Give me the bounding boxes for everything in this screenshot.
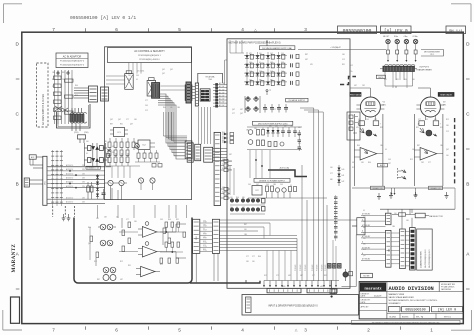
svg-text:9V VALVE SUPPLY: 9V VALVE SUPPLY bbox=[289, 99, 306, 102]
svg-text:680: 680 bbox=[259, 80, 262, 82]
dashed pin bars lower bbox=[53, 206, 75, 217]
svg-text:C45: C45 bbox=[203, 221, 206, 223]
svg-text:6: 6 bbox=[115, 27, 118, 32]
svg-text:0.1: 0.1 bbox=[426, 119, 428, 121]
AC inlet socket J901 bbox=[29, 155, 43, 168]
svg-text:P ORIVE: P ORIVE bbox=[305, 265, 307, 271]
svg-text:0.1: 0.1 bbox=[363, 232, 365, 234]
capacitor column right bbox=[334, 195, 338, 241]
svg-text:C45: C45 bbox=[280, 184, 283, 186]
revision box NO NE bbox=[360, 273, 372, 277]
svg-text:C77: C77 bbox=[330, 173, 333, 175]
title block left column texts bbox=[361, 294, 382, 309]
svg-text:R44: R44 bbox=[258, 256, 261, 258]
terminal pin block CN7 bbox=[200, 89, 210, 101]
svg-text:2K2: 2K2 bbox=[362, 85, 365, 87]
output tube stage V2 REAR VALVE bbox=[414, 88, 454, 186]
svg-text:MARANTZ WM8: MARANTZ WM8 bbox=[389, 293, 405, 296]
rectifier bus verticals bbox=[85, 143, 106, 166]
zener diode column D201 bbox=[96, 174, 99, 200]
svg-text:D12: D12 bbox=[440, 127, 443, 129]
svg-text:R12: R12 bbox=[446, 119, 449, 121]
transformer centre tap drops bbox=[393, 72, 407, 89]
svg-text:1N4: 1N4 bbox=[273, 184, 276, 186]
svg-text:P ORIVE: P ORIVE bbox=[300, 265, 302, 271]
svg-text:C12: C12 bbox=[446, 131, 449, 133]
svg-text:0.1: 0.1 bbox=[222, 136, 224, 138]
svg-text:C45: C45 bbox=[266, 184, 269, 186]
svg-text:680: 680 bbox=[330, 179, 333, 181]
svg-text:22u: 22u bbox=[116, 217, 119, 219]
svg-text:PC05520(EU)/(EU)LEV 1: PC05520(EU)/(EU)LEV 1 bbox=[138, 55, 161, 57]
wires between CN12 CN13 bbox=[200, 221, 213, 252]
interstage transistors J1 J2 bbox=[398, 168, 406, 180]
svg-text:C12: C12 bbox=[342, 59, 345, 61]
transistor Q101 bbox=[135, 144, 140, 149]
svg-text:DRIVER TO POWER SUPPLY: DRIVER TO POWER SUPPLY bbox=[259, 180, 285, 182]
svg-text:B: B bbox=[466, 182, 469, 187]
svg-text:0.1: 0.1 bbox=[262, 128, 264, 130]
op-amp stage A2 bbox=[138, 242, 162, 257]
module output connector bar CN13 bbox=[212, 219, 219, 253]
svg-text:0.1: 0.1 bbox=[203, 229, 205, 231]
svg-text:4Ω OUT: 4Ω OUT bbox=[383, 36, 389, 38]
svg-text:4K7: 4K7 bbox=[222, 187, 225, 189]
svg-text:4K7: 4K7 bbox=[222, 159, 225, 161]
svg-text:0.1: 0.1 bbox=[363, 210, 365, 212]
svg-text:marantz: marantz bbox=[364, 285, 381, 290]
svg-text:100: 100 bbox=[244, 229, 247, 231]
MOTHER BOARD PWR board outline bbox=[227, 39, 350, 288]
svg-text:R31: R31 bbox=[342, 64, 345, 66]
svg-text:D12: D12 bbox=[203, 241, 206, 243]
connector bar bottom drops bbox=[196, 253, 218, 283]
svg-text:[A] LEV 0: [A] LEV 0 bbox=[384, 29, 408, 34]
svg-text:C12: C12 bbox=[273, 109, 276, 111]
9V filter caps row bbox=[263, 104, 288, 113]
svg-text:D42: D42 bbox=[342, 181, 345, 183]
wire bundle relay to connector diagonal bbox=[158, 94, 185, 159]
mid vertical bus to lower connectors bbox=[199, 107, 211, 144]
wire bundle switch to filter bbox=[74, 88, 89, 98]
svg-text:Q07: Q07 bbox=[270, 53, 273, 55]
svg-text:C77: C77 bbox=[252, 256, 255, 258]
svg-text:680: 680 bbox=[242, 197, 245, 199]
title block part number row bbox=[389, 307, 430, 313]
svg-text:22u: 22u bbox=[350, 71, 353, 73]
meter connector bar CN15 bbox=[400, 229, 406, 269]
svg-text:A77: A77 bbox=[320, 285, 323, 288]
link wire to meter section bbox=[220, 220, 357, 226]
svg-text:5: 5 bbox=[178, 27, 181, 32]
svg-text:MR SCREWDRIVER: MR SCREWDRIVER bbox=[424, 52, 441, 54]
connector bar CN8 bbox=[187, 143, 193, 162]
neon lamp NE1 bbox=[105, 180, 116, 185]
link box right of driver bbox=[352, 218, 365, 235]
svg-text:24V VALVE HEATER SUPPLY (8A): 24V VALVE HEATER SUPPLY (8A) bbox=[262, 47, 292, 50]
wire stub rows to mother board bbox=[213, 82, 227, 107]
chassis entry connector J902 bbox=[24, 178, 43, 187]
relay feed wires bbox=[106, 63, 185, 91]
INPUT & DRIVER PWR box bbox=[242, 295, 359, 316]
svg-text:B: B bbox=[16, 182, 19, 187]
svg-text:PC05525(220V)(EU)LEV 0: PC05525(220V)(EU)LEV 0 bbox=[60, 61, 85, 63]
svg-text:1N4: 1N4 bbox=[392, 226, 395, 228]
svg-text:2K2: 2K2 bbox=[128, 75, 131, 77]
svg-text:R31: R31 bbox=[128, 79, 131, 81]
svg-text:P ORIVE: P ORIVE bbox=[325, 265, 327, 271]
svg-text:R31: R31 bbox=[120, 124, 123, 126]
driver supply IC U2 bbox=[252, 186, 262, 196]
wires between meter bars bbox=[391, 232, 410, 266]
svg-text:COMm: COMm bbox=[412, 36, 418, 38]
svg-text:Q07: Q07 bbox=[110, 119, 113, 121]
svg-text:R87: R87 bbox=[110, 124, 113, 126]
connector bar CN5 dark bbox=[186, 82, 191, 103]
svg-text:R31: R31 bbox=[396, 79, 399, 81]
decoupling caps C31 C32 bbox=[298, 130, 302, 151]
meter connector bar CN14 bbox=[386, 230, 392, 267]
speaker terminal J2 bbox=[395, 39, 399, 43]
svg-text:R87: R87 bbox=[97, 279, 100, 281]
svg-text:22u: 22u bbox=[363, 238, 366, 240]
parts right of CN11 mid bbox=[221, 159, 233, 171]
svg-text:D12: D12 bbox=[281, 62, 284, 64]
svg-text:LTD 5: LTD 5 bbox=[430, 54, 434, 56]
input stage module thick outline bbox=[74, 218, 192, 284]
security IC U102 bbox=[134, 140, 155, 150]
svg-text:(230): (230) bbox=[84, 132, 89, 134]
svg-text:DC COIL: DC COIL bbox=[137, 71, 144, 73]
svg-text:D40: D40 bbox=[342, 169, 345, 171]
svg-text:P ORIVE: P ORIVE bbox=[295, 265, 297, 271]
svg-text:1: 1 bbox=[430, 328, 433, 333]
svg-text:Q07: Q07 bbox=[162, 69, 165, 71]
op-amp stage A3 bbox=[136, 266, 160, 276]
svg-text:D12: D12 bbox=[264, 275, 267, 277]
corner registration mark bottom-right bbox=[451, 310, 472, 330]
svg-text:4K7: 4K7 bbox=[120, 279, 123, 281]
svg-text:680: 680 bbox=[104, 141, 107, 143]
svg-text:1N4: 1N4 bbox=[380, 145, 383, 147]
bias transistor pair Q5 Q6 bbox=[103, 267, 116, 280]
input transistor pair Q3 Q4 bbox=[100, 240, 113, 246]
title block outer frame bbox=[359, 282, 463, 319]
+B link heavy trace bbox=[268, 166, 307, 176]
svg-text:CN2: CN2 bbox=[196, 236, 198, 240]
grid column labels top bbox=[52, 27, 307, 32]
grid row labels right bbox=[466, 42, 470, 290]
svg-text:R44: R44 bbox=[404, 79, 407, 81]
svg-text:R87: R87 bbox=[222, 140, 225, 142]
svg-text:R87: R87 bbox=[244, 224, 247, 226]
driver stage dark transistors bbox=[230, 199, 265, 215]
svg-text:D: D bbox=[16, 42, 20, 47]
speaker terminal labels bbox=[383, 36, 418, 38]
svg-text:6: 6 bbox=[115, 328, 118, 333]
corner registration mark bottom-left bbox=[3, 310, 22, 330]
heater filter capacitors bbox=[291, 54, 300, 85]
svg-text:Q07: Q07 bbox=[256, 184, 259, 186]
svg-text:TRANSFORMER: TRANSFORMER bbox=[416, 68, 432, 71]
svg-text:R31: R31 bbox=[176, 219, 179, 221]
svg-text:MARANTZ: MARANTZ bbox=[11, 244, 17, 273]
svg-text:R12: R12 bbox=[410, 159, 413, 161]
meter connector TP bar bbox=[386, 213, 392, 225]
connector bracket outline bbox=[198, 73, 223, 83]
MOTHER BOARD PWR title bbox=[229, 41, 281, 44]
svg-text:+ 24V(8A) AT: + 24V(8A) AT bbox=[330, 46, 342, 49]
svg-text:R44: R44 bbox=[236, 197, 239, 199]
svg-text:MUTE: MUTE bbox=[378, 77, 384, 79]
svg-text:4K7: 4K7 bbox=[284, 125, 287, 127]
svg-text:6P1: 6P1 bbox=[443, 105, 446, 107]
svg-text:C: C bbox=[16, 112, 20, 117]
secondary bus line bbox=[48, 166, 111, 169]
svg-text:C12: C12 bbox=[270, 71, 273, 73]
svg-text:0.1: 0.1 bbox=[236, 207, 238, 209]
svg-text:7: 7 bbox=[440, 124, 441, 126]
arrow row into input connectors bbox=[263, 281, 337, 288]
neon lamp NE2 bbox=[116, 180, 127, 185]
marantz logo cell bbox=[360, 283, 385, 291]
svg-text:C12: C12 bbox=[374, 119, 377, 121]
speaker terminal J3 bbox=[404, 39, 408, 43]
svg-text:C45: C45 bbox=[136, 75, 139, 77]
svg-text:4K7: 4K7 bbox=[229, 154, 232, 156]
bottom remark bus line bbox=[352, 186, 455, 190]
svg-text:VALVE STAGE AMPLIFIER: VALVE STAGE AMPLIFIER bbox=[389, 296, 415, 299]
input box left bracket bbox=[246, 297, 252, 313]
svg-text:P ORIVE: P ORIVE bbox=[321, 265, 323, 271]
svg-text:5: 5 bbox=[178, 328, 181, 333]
svg-text:Q07: Q07 bbox=[446, 149, 449, 151]
diode column D41 bbox=[337, 165, 344, 186]
svg-text:(220): (220) bbox=[74, 132, 79, 134]
svg-text:C45: C45 bbox=[265, 109, 268, 111]
svg-text:PH 2AB 12E85LK: PH 2AB 12E85LK bbox=[441, 286, 455, 289]
vertical wire at box B edge bbox=[225, 60, 227, 85]
input connector strip B bbox=[307, 285, 337, 293]
svg-text:R31: R31 bbox=[128, 265, 131, 267]
title block dividers bbox=[359, 282, 463, 319]
neon lamp NE4 bbox=[150, 178, 155, 190]
svg-text:C77: C77 bbox=[126, 219, 129, 221]
svg-text:C77: C77 bbox=[145, 100, 148, 102]
OUTPUTS TRANSFORMER label bbox=[416, 66, 432, 71]
pin header column P3 bbox=[60, 150, 63, 206]
svg-text:1N4: 1N4 bbox=[440, 145, 443, 147]
svg-text:D12: D12 bbox=[94, 261, 97, 263]
svg-text:D12: D12 bbox=[222, 168, 225, 170]
svg-text:680: 680 bbox=[434, 119, 437, 121]
svg-text:MA PC05530(EU)/LEV 0: MA PC05530(EU)/LEV 0 bbox=[424, 249, 427, 268]
svg-text:680: 680 bbox=[363, 244, 366, 246]
mains bus wiring loop bbox=[57, 104, 91, 128]
svg-text:A11: A11 bbox=[283, 285, 286, 288]
svg-text:AC CONTROL & SECURITY: AC CONTROL & SECURITY bbox=[134, 50, 165, 53]
svg-text:9AF29E3/M6: 9AF29E3/M6 bbox=[441, 288, 451, 291]
svg-text:Q07: Q07 bbox=[240, 113, 243, 115]
svg-text:1N4: 1N4 bbox=[290, 125, 293, 127]
svg-text:Q07: Q07 bbox=[170, 69, 173, 71]
svg-text:ACF: ACF bbox=[31, 156, 34, 159]
svg-text:R12: R12 bbox=[75, 95, 78, 97]
svg-text:100: 100 bbox=[363, 221, 366, 223]
svg-text:R87: R87 bbox=[62, 72, 65, 74]
svg-text:AC MAIN SWITCH & FILTER: AC MAIN SWITCH & FILTER bbox=[42, 94, 45, 125]
sub circuit box right edge bbox=[347, 112, 360, 140]
slanted bus into CN8 bbox=[163, 112, 187, 142]
svg-text:4K7: 4K7 bbox=[354, 85, 357, 87]
svg-text:100: 100 bbox=[230, 207, 233, 209]
grid column labels bottom bbox=[52, 326, 433, 332]
svg-text:100: 100 bbox=[446, 155, 449, 157]
copyright fine print strip bbox=[352, 320, 461, 324]
op-amp stage A1 bbox=[138, 222, 162, 238]
corner registration mark top-left bbox=[4, 4, 23, 23]
mother board mid horizontal wires bbox=[220, 223, 298, 251]
svg-text:MA SELECTOR: MA SELECTOR bbox=[429, 215, 443, 218]
svg-text:0955500100: 0955500100 bbox=[343, 28, 372, 34]
svg-text:D12: D12 bbox=[352, 167, 355, 169]
svg-text:PC05510(EU)+FLEX 0: PC05510(EU)+FLEX 0 bbox=[139, 59, 160, 61]
svg-text:2: 2 bbox=[367, 328, 370, 333]
AUDIO DIVISION heading bbox=[389, 286, 434, 292]
svg-text:100: 100 bbox=[259, 53, 262, 55]
AC CONTROL & SECURITY board outline bbox=[105, 47, 192, 200]
title box drawing number bbox=[338, 26, 377, 34]
svg-text:R12: R12 bbox=[52, 79, 55, 81]
svg-text:NO NE: NO NE bbox=[363, 276, 370, 278]
svg-text:D12: D12 bbox=[104, 153, 107, 155]
svg-text:DATE:: DATE: bbox=[361, 301, 366, 304]
svg-text:100: 100 bbox=[86, 141, 89, 143]
indicator wiring bbox=[111, 186, 122, 200]
relay K1 bbox=[125, 71, 134, 89]
svg-text:7: 7 bbox=[52, 27, 55, 32]
svg-text:B/DWG: B/DWG bbox=[402, 316, 409, 318]
svg-text:4 Ωm: 4 Ωm bbox=[403, 36, 408, 38]
relay coil label bbox=[137, 71, 144, 73]
relay K2 bbox=[147, 78, 156, 96]
svg-text:D12: D12 bbox=[363, 249, 366, 251]
svg-text:22u: 22u bbox=[62, 79, 65, 81]
ground symbol G3 bbox=[414, 192, 418, 198]
svg-text:4K7: 4K7 bbox=[288, 275, 291, 277]
svg-text:APPD BY:: APPD BY: bbox=[361, 305, 370, 308]
svg-text:R44: R44 bbox=[163, 107, 166, 109]
three pad squares bbox=[328, 264, 342, 269]
power transformer T901 bbox=[70, 108, 89, 134]
title block description texts bbox=[389, 293, 439, 305]
security vertical wires to lamps bbox=[112, 166, 130, 178]
svg-text:OUTPUTS: OUTPUTS bbox=[419, 66, 429, 68]
LOADING METER label box vertical bbox=[417, 229, 433, 270]
svg-text:C45: C45 bbox=[249, 71, 252, 73]
bus drop symbols bbox=[391, 188, 418, 196]
svg-text:R44: R44 bbox=[368, 162, 371, 164]
snubber network RC901 bbox=[107, 149, 111, 163]
input module feedback wires bbox=[119, 224, 186, 258]
svg-text:R44: R44 bbox=[88, 227, 91, 229]
svg-text:0955500100 [A] LEV 0 1/1: 0955500100 [A] LEV 0 1/1 bbox=[70, 15, 136, 21]
thermal fuse box F901 bbox=[78, 135, 86, 143]
AC IN ADAPTOR label box bbox=[56, 53, 88, 68]
corner registration mark top-right bbox=[451, 4, 471, 22]
+B supply components row bbox=[247, 127, 302, 150]
wires CN10 to mother board bbox=[213, 149, 227, 161]
svg-text:MODEL/ART NM: MODEL/ART NM bbox=[441, 283, 455, 286]
driver supply parts row bbox=[248, 186, 327, 198]
svg-text:R44: R44 bbox=[75, 85, 78, 87]
DRIVER TO POWER SUPPLY label box bbox=[254, 178, 290, 182]
speaker terminal J4 bbox=[413, 39, 417, 43]
svg-text:100: 100 bbox=[230, 197, 233, 199]
input connector strip A bbox=[267, 285, 301, 293]
svg-text:D12: D12 bbox=[350, 65, 353, 67]
meter connector bar CN16 with pins bbox=[410, 228, 416, 270]
svg-text:R31: R31 bbox=[416, 127, 419, 129]
svg-text:4: 4 bbox=[418, 124, 419, 126]
svg-text:1N4: 1N4 bbox=[52, 72, 55, 74]
svg-text:C45: C45 bbox=[388, 159, 391, 161]
heater rectifier grid bbox=[244, 52, 287, 86]
security IC U101 bbox=[110, 128, 128, 137]
svg-text:C12: C12 bbox=[222, 164, 225, 166]
board F right-edge connector CN3 bbox=[185, 85, 192, 101]
bridge rectifier D901 row1 bbox=[84, 146, 107, 151]
heater supply output wire +24V bbox=[266, 41, 386, 50]
svg-text:Q07: Q07 bbox=[88, 243, 91, 245]
output tube stage V1 FRNT VALVE bbox=[350, 88, 386, 186]
AC CONTROL & SECURITY title box bbox=[108, 48, 192, 63]
svg-text:7: 7 bbox=[380, 124, 381, 126]
svg-text:C77: C77 bbox=[428, 162, 431, 164]
header drawing number text bbox=[70, 15, 136, 21]
MUTE box bbox=[376, 75, 385, 79]
svg-text:DATE:: DATE: bbox=[361, 295, 366, 298]
svg-text:680: 680 bbox=[363, 227, 366, 229]
svg-text:Q07: Q07 bbox=[363, 255, 366, 257]
board F right-edge connector CN4 bbox=[185, 141, 192, 159]
wires into input module top bbox=[98, 205, 187, 218]
filing margin box bottom-left bbox=[11, 297, 20, 323]
9V VALVE SUPPLY label box bbox=[286, 98, 308, 102]
svg-text:R44: R44 bbox=[168, 219, 171, 221]
svg-text:C77: C77 bbox=[246, 256, 249, 258]
svg-text:C45: C45 bbox=[160, 219, 163, 221]
svg-text:R31: R31 bbox=[324, 275, 327, 277]
svg-text:C77: C77 bbox=[126, 119, 129, 121]
svg-text:△: △ bbox=[295, 328, 298, 332]
svg-text:Q07: Q07 bbox=[130, 124, 133, 126]
connector bar CN10 bbox=[204, 147, 213, 162]
svg-text:C45: C45 bbox=[366, 119, 369, 121]
svg-text:C77: C77 bbox=[312, 275, 315, 277]
svg-text:0.1: 0.1 bbox=[136, 79, 138, 81]
mains switch contact cluster S1 bbox=[54, 70, 74, 124]
input module resistors bbox=[90, 218, 171, 266]
relay contact block K3 bbox=[152, 83, 160, 99]
resistor near Q9 bbox=[331, 280, 337, 297]
svg-text:01-06-99: 01-06-99 bbox=[374, 296, 381, 298]
svg-text:C77: C77 bbox=[276, 275, 279, 277]
svg-text:R87: R87 bbox=[417, 145, 420, 147]
parts right of CN11 lower bbox=[221, 187, 231, 199]
pin header column P2 bbox=[56, 150, 59, 206]
capacitor pair C201 bbox=[102, 189, 106, 199]
